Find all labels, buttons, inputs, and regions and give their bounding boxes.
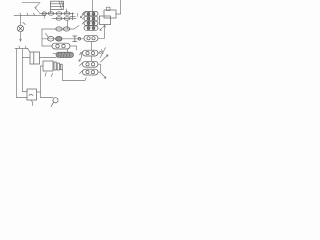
wire top antenna lead	[22, 2, 40, 4]
row C oval 2	[63, 27, 69, 31]
row C wire	[42, 26, 79, 30]
device box M	[43, 61, 53, 71]
row A wire	[40, 13, 75, 15]
curved arrow pointer	[79, 53, 82, 62]
striped box top	[51, 1, 64, 9]
small component on box top	[107, 7, 111, 10]
node circle R2 lead	[100, 51, 102, 53]
box lower right	[100, 16, 111, 25]
device left lead	[41, 65, 44, 67]
stadium R1	[84, 35, 98, 41]
stadium R4	[83, 69, 99, 75]
stadium R3	[83, 61, 99, 67]
row B wire	[52, 18, 76, 20]
arrowhead	[20, 39, 22, 41]
wire stadium E right hook	[70, 46, 77, 50]
component box B2 source	[27, 89, 37, 100]
wire R2 right lead	[98, 52, 100, 54]
row D oval 2	[56, 37, 62, 42]
wire vertical bus x16.5	[16, 49, 18, 98]
label arrow below boxes	[100, 27, 103, 30]
label tick b	[25, 46, 28, 48]
wire bottom horizontal	[17, 97, 28, 99]
wire R3 right lead	[98, 63, 101, 65]
row A oval 1	[42, 12, 46, 15]
device bar 2	[57, 63, 59, 70]
arrow down-right	[101, 73, 107, 79]
component box B	[30, 52, 40, 64]
arrowhead on lead-in	[35, 7, 37, 9]
arrow up-right	[101, 55, 109, 62]
label arrow under device 2	[51, 73, 52, 76]
row D diagonal tick	[46, 34, 49, 37]
capacitor I symbol	[73, 36, 77, 42]
label tick 4	[44, 16, 46, 19]
stack stadium 2	[84, 16, 98, 20]
detector crossed circle	[17, 23, 25, 32]
arrow tail below B2	[31, 100, 33, 106]
wire vertical x40.5	[40, 66, 42, 98]
wire vertical to detector	[20, 16, 22, 26]
wire chain vertical 2	[91, 56, 93, 61]
row D oval 1	[48, 37, 54, 42]
wire chain vertical 1	[91, 41, 93, 50]
row C oval 1	[56, 27, 62, 31]
arrow to box B	[27, 48, 30, 52]
tick left of R3	[80, 63, 83, 66]
wire main horizontal line 7	[14, 15, 46, 17]
row B oval 2	[64, 17, 70, 20]
wire into box B left	[23, 57, 31, 59]
label arrow under device 1	[45, 73, 46, 76]
hatch ticks left of stack	[82, 12, 84, 24]
wire zigzag lead-in	[35, 3, 40, 13]
wire vertical row B to row C	[67, 20, 69, 28]
stack stadium 4	[84, 26, 98, 30]
ground circle terminal	[51, 98, 58, 107]
row A oval 2	[48, 12, 54, 15]
label tick 1	[20, 13, 21, 15]
arrow up right	[104, 25, 106, 34]
label V mark	[100, 48, 105, 58]
label tick 3	[34, 13, 35, 15]
cylinder left lead	[53, 53, 56, 55]
stadium E	[52, 43, 70, 49]
row B oval 1	[56, 17, 62, 20]
wire left bus x42	[41, 29, 43, 46]
device bar 3	[60, 64, 62, 70]
tick left of R4	[80, 71, 83, 74]
wire vertical bus x92.5 top	[92, 0, 94, 12]
wire row E to cylinder	[67, 49, 69, 52]
label tick 2	[27, 13, 28, 15]
small node circle	[78, 38, 81, 41]
capacitor cross symbol	[70, 13, 75, 20]
stadium R2	[83, 50, 99, 56]
box upper right	[104, 10, 116, 18]
wire below striped box	[66, 9, 68, 14]
device bar 1	[54, 62, 56, 70]
stack stadium 1	[84, 12, 98, 16]
row D wire	[42, 38, 84, 40]
wire stadium R1 right	[98, 34, 105, 38]
wire box to right bus	[116, 13, 121, 15]
row A oval 3	[56, 12, 62, 15]
wire vertical below detector	[20, 32, 22, 41]
wire vertical bus x22.5	[22, 49, 24, 92]
wire bottom to ground circle	[41, 97, 54, 99]
row E left lead	[42, 45, 52, 47]
wire R4 right lead	[98, 71, 101, 73]
wire B2 right lead	[37, 91, 41, 93]
wire vertical bus x120.5	[120, 0, 122, 14]
wire top left of striped box	[50, 9, 52, 13]
wire horizontal line left lower	[15, 48, 28, 50]
tick left of R2	[80, 52, 83, 55]
cylinder component dark	[56, 52, 74, 57]
wire from device bars down and right	[63, 70, 87, 81]
label tick a	[18, 46, 21, 48]
arrow diagonal pointer	[80, 12, 86, 18]
wire to box B2	[23, 91, 28, 93]
wire box B to cylinder	[40, 57, 57, 59]
wire right vertical join	[100, 64, 102, 72]
capacitor tick row B end	[77, 13, 79, 16]
stack stadium 3	[84, 21, 98, 25]
row A oval 4	[64, 12, 70, 15]
